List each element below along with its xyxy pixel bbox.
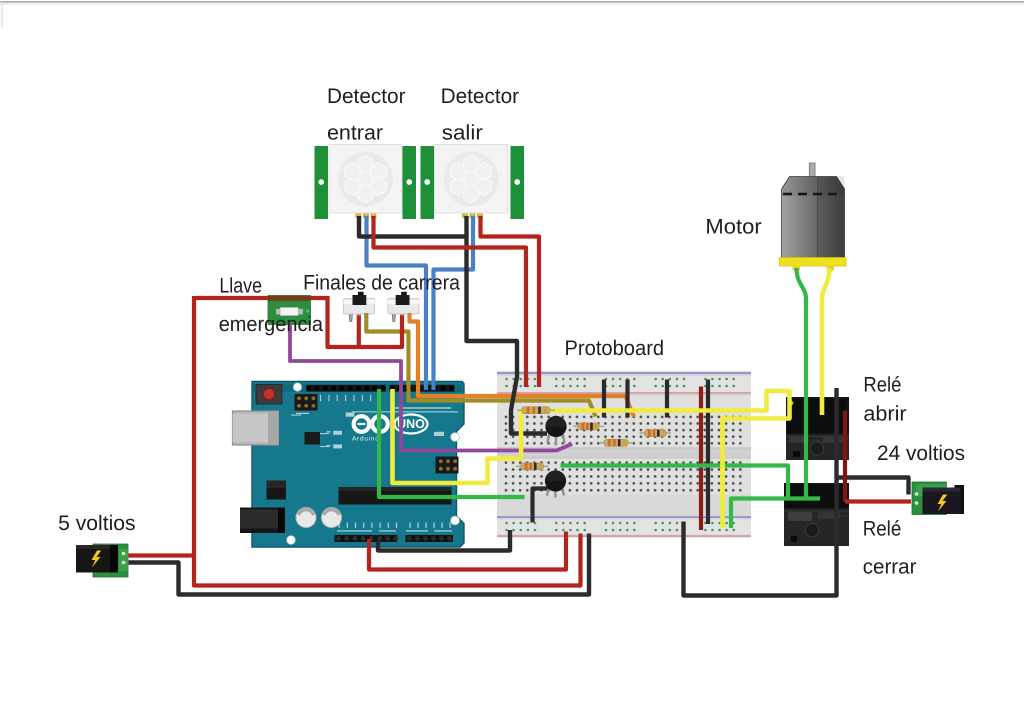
wire purple llave-emergencia to Arduino to protoboard [290,324,572,451]
transistor Q2 (TO-92) [545,470,566,497]
svg-text:Relé: Relé [863,374,901,397]
protoboard (breadboard) body [497,371,751,538]
svg-text:Detector: Detector [441,85,519,108]
Arduino ICSP header [436,457,459,474]
Arduino voltage regulator [267,481,287,500]
svg-text:salir: salir [442,122,483,145]
5 voltios power supply module [76,544,128,577]
svg-text:Arduino: Arduino [352,436,380,443]
Arduino mounting holes [287,383,460,545]
detector entrar (PIR sensor module) [315,145,417,220]
wire red relay to 24V-supply [845,499,911,503]
relay abrir K1 [786,397,849,460]
protoboard hole grid lower [504,459,744,494]
final de carrera switch SW1 [344,292,375,322]
page top border line [0,1,1024,3]
motor M1 [780,163,847,272]
wire black transistor Q2 to protoboard bottom rail [533,489,550,523]
wire black relay junction to 24V-supply [837,478,909,495]
Arduino ICSP2 header [295,394,318,411]
wire black relay-abrir through relay-cerrar to protoboard bottom rail [684,388,837,596]
wire red 5V-supply junction [129,553,195,557]
wire red Arduino 5V to protoboard bottom rail [369,532,566,570]
protoboard power rail holes bottom [503,520,744,534]
Arduino logo [354,416,388,432]
wire green protoboard bottom rail to relay-cerrar [731,499,820,529]
svg-text:cerrar: cerrar [863,556,917,579]
wire black protoboard jumper 1 [602,380,606,418]
24 voltios power supply module [912,482,964,515]
Arduino main IC chip [339,487,452,505]
protoboard red rail line bottom [497,535,751,537]
svg-text:abrir: abrir [863,403,906,426]
svg-text:Finales de carrera: Finales de carrera [303,272,460,295]
wire red llave-emergencia to finales-de-carrera switches [328,296,403,347]
svg-text:emergencia: emergencia [219,313,324,336]
protoboard blue rail line bottom [497,516,751,518]
wire black Arduino GND to protoboard bottom rail [378,530,510,551]
resistor R5 [516,463,549,470]
wire black detector-salir to protoboard transistor Q1 [467,216,548,434]
svg-text:Protoboard: Protoboard [565,337,665,360]
wire yellow motor to relay-abrir [822,268,830,415]
svg-text:entrar: entrar [327,122,383,145]
final de carrera switch SW2 [388,292,419,322]
wire black 5V-supply to protoboard bottom rail [129,534,590,595]
wire blue detector-salir to Arduino D-pin [434,216,474,390]
wire black protoboard long jumper [706,380,710,525]
wire orange final-carrera-SW2 to Arduino to protoboard [410,313,635,417]
svg-text:Llave: Llave [219,275,262,298]
Arduino silkscreen marks [291,395,458,532]
Arduino UNO oval [395,415,428,434]
relay cerrar K2 [784,483,849,546]
svg-text:Detector: Detector [327,85,406,108]
protoboard red rail line top [497,392,751,394]
wire black detector-entrar to detector-salir [359,216,467,237]
Arduino power jack [240,508,285,534]
Arduino crystal [305,432,321,445]
wire green protoboard row to relay-cerrar top [561,466,789,501]
Arduino reset button [256,385,282,405]
svg-text:5 voltios: 5 voltios [58,512,136,535]
wire green Arduino to protoboard row [379,389,525,497]
resistor R3 [599,439,633,446]
Arduino capacitor C1 [296,507,316,527]
wire red detector-entrar to protoboard rail [374,216,527,387]
Arduino USB connector [233,411,279,445]
svg-text:24 voltios: 24 voltios [877,442,965,465]
page left border line [2,1,3,28]
wire red 5V bus to llave-emergencia (behind module) [194,296,328,300]
svg-text:Relé: Relé [863,518,902,541]
wire red protoboard long jumper [699,387,703,531]
llave emergencia switch module [268,296,311,325]
wire black protoboard jumper 3 [665,380,669,418]
protoboard power rail holes top [503,376,744,390]
transistor Q1 (TO-92) [545,416,566,446]
resistor R4 [640,430,672,437]
protoboard blue rail line top [497,372,751,374]
Arduino top pin header row [306,385,455,392]
protoboard hole grid upper [504,414,744,447]
wire yellow Arduino pin13 to protoboard to relay-abrir and bottom rail [393,389,790,528]
wire red final-carrera-SW1 middle pin junction [357,316,361,348]
Arduino UNO board [252,382,464,548]
Arduino capacitor C2 [322,507,342,527]
wire olive final-carrera-SW1 to Arduino to protoboard [366,313,595,417]
Arduino bottom pin headers [335,535,454,542]
resistor R2 [573,423,604,430]
wire black protoboard jumper 2 [625,380,629,418]
wire blue detector-entrar to Arduino D-pin [367,216,427,390]
wire red llave-emergencia / 5V bus to protoboard bottom rail [194,296,581,586]
detector salir (PIR sensor module) [421,145,525,220]
wire green motor to relay-cerrar [797,268,807,500]
wire dark-red relay-abrir down to 24V level [843,411,847,502]
wire red detector-salir to protoboard rail [481,216,540,387]
resistor R1 [517,407,555,414]
svg-text:Motor: Motor [705,216,761,239]
